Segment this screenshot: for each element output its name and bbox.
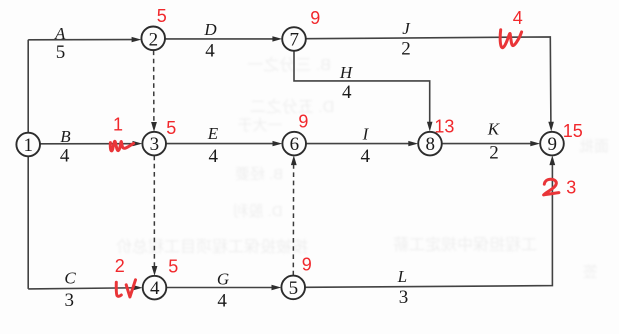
- node 5: [281, 276, 305, 300]
- node 6: [282, 132, 306, 156]
- svg-text:3: 3: [566, 178, 576, 198]
- arrow G (4 to 5): [166, 287, 273, 289]
- wire/arrow J (7 right, corner, down into 9): [306, 37, 551, 124]
- svg-text:4: 4: [217, 291, 227, 312]
- svg-text:D. 股利: D. 股利: [233, 203, 282, 220]
- wire/arrow L (5 right, corner, up into 9): [305, 163, 552, 287]
- node 8: [418, 132, 442, 156]
- wire/arrow C (corner to 4): [28, 288, 135, 289]
- svg-text:2: 2: [149, 29, 159, 50]
- wire: left vertical (corner-1-corner): [27, 40, 29, 289]
- svg-text:4: 4: [342, 82, 352, 103]
- svg-text:6: 6: [290, 134, 300, 155]
- svg-text:8: 8: [425, 134, 435, 155]
- node 3: [142, 132, 166, 156]
- arrow D (2 to 7): [165, 38, 275, 40]
- faint bleed-through text (back of scanned page): [116, 56, 609, 281]
- red handwritten 2 (near node 9 bottom): [544, 179, 559, 195]
- svg-text:工程担保中规定工薪: 工程担保中规定工薪: [393, 236, 537, 254]
- svg-text:4: 4: [360, 146, 370, 167]
- svg-text:E: E: [207, 124, 219, 143]
- svg-text:L: L: [397, 267, 407, 286]
- svg-text:D. 五分之二: D. 五分之二: [250, 98, 334, 116]
- svg-text:B. 三分之一: B. 三分之一: [247, 56, 331, 74]
- svg-text:5: 5: [168, 257, 178, 277]
- node 2: [141, 27, 165, 51]
- svg-text:H: H: [339, 63, 354, 82]
- svg-text:13: 13: [434, 117, 454, 137]
- svg-text:K: K: [487, 120, 501, 139]
- svg-text:7: 7: [289, 30, 299, 51]
- svg-text:2: 2: [401, 38, 411, 59]
- red scribble w on C line: [116, 280, 135, 297]
- svg-text:4: 4: [209, 146, 219, 167]
- svg-text:签: 签: [582, 264, 597, 281]
- dashed arrow 2 to 3: [153, 51, 155, 126]
- svg-text:4: 4: [60, 145, 70, 166]
- wire/arrow H (7 down, right, down into 8): [294, 51, 430, 124]
- svg-text:15: 15: [563, 121, 583, 141]
- svg-text:一大于: 一大于: [237, 117, 282, 134]
- svg-text:A: A: [54, 24, 66, 43]
- svg-text:2: 2: [489, 143, 499, 164]
- svg-text:5: 5: [166, 118, 176, 138]
- svg-text:C: C: [64, 269, 76, 288]
- arrow I (6 to 8): [306, 143, 410, 145]
- svg-text:4: 4: [513, 8, 523, 28]
- arrow B (1 to 3): [40, 143, 135, 145]
- svg-text:1: 1: [113, 115, 123, 135]
- svg-text:1: 1: [23, 135, 33, 156]
- svg-text:4: 4: [205, 41, 215, 62]
- dashed arrow 5 to 6: [292, 163, 294, 275]
- svg-text:3: 3: [65, 290, 75, 311]
- svg-text:5: 5: [56, 42, 66, 63]
- svg-text:5: 5: [157, 6, 167, 26]
- wire/arrow A (start node 1 corner to node 2): [28, 39, 133, 41]
- svg-text:B: B: [60, 127, 71, 146]
- svg-text:2: 2: [115, 256, 125, 276]
- svg-text:G: G: [217, 270, 229, 289]
- node 9: [540, 132, 564, 156]
- node 7: [282, 27, 306, 51]
- arrow K (8 to 9): [442, 143, 533, 145]
- svg-text:9: 9: [547, 134, 557, 155]
- svg-text:5: 5: [289, 278, 299, 299]
- node 1: [16, 133, 40, 157]
- node 4: [143, 276, 167, 300]
- svg-text:4: 4: [150, 278, 160, 299]
- svg-text:9: 9: [310, 8, 320, 28]
- svg-text:9: 9: [298, 112, 308, 132]
- svg-text:B. 经要: B. 经要: [235, 166, 283, 183]
- arrow E (3 to 6): [166, 143, 275, 145]
- svg-text:3: 3: [150, 134, 160, 155]
- red scribble w on B line: [110, 141, 133, 151]
- svg-text:3: 3: [399, 287, 409, 308]
- svg-text:按被投保工程项目工程总价: 按被投保工程项目工程总价: [116, 238, 308, 256]
- dashed arrow 3 to 4: [153, 156, 155, 269]
- svg-text:面批: 面批: [579, 138, 609, 155]
- red scribble w on J line: [500, 30, 521, 48]
- svg-text:D: D: [203, 20, 217, 39]
- svg-text:9: 9: [302, 255, 312, 275]
